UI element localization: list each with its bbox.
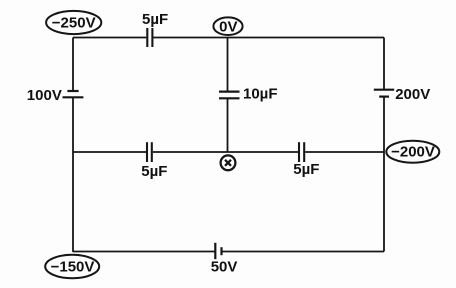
capacitor C1 5uF (top) <box>147 28 152 47</box>
node label -200V <box>386 141 439 163</box>
wire: middle horizontal right segment <box>305 151 384 153</box>
svg-text:−150V: −150V <box>51 258 95 275</box>
battery B3 50V (long plate) <box>214 243 216 259</box>
battery B3 50V (short plate) <box>220 247 222 255</box>
wire: left vertical top segment <box>72 38 74 92</box>
node X (test point) <box>221 155 236 170</box>
battery B1 100V (short plate) <box>67 90 78 92</box>
wire: center vertical bottom segment <box>227 98 229 152</box>
svg-text:200V: 200V <box>395 86 430 103</box>
svg-text:10µF: 10µF <box>243 85 278 102</box>
wire: center vertical top segment <box>227 38 229 92</box>
capacitor C2 10uF (bottom plate) <box>219 97 240 99</box>
wire: middle horizontal center segment <box>153 151 298 153</box>
capacitor C2 10uF (top plate) <box>219 90 240 92</box>
svg-text:−250V: −250V <box>52 14 96 31</box>
wire: middle horizontal left segment <box>73 151 146 153</box>
svg-text:−200V: −200V <box>391 144 435 161</box>
svg-text:50V: 50V <box>211 259 238 276</box>
wire: top horizontal right segment <box>153 37 384 39</box>
wire: right vertical bottom segment <box>383 97 385 252</box>
node label -250V <box>46 11 101 34</box>
svg-text:100V: 100V <box>27 87 62 104</box>
battery B2 200V (long plate) <box>374 89 394 91</box>
wire: bottom horizontal left segment <box>73 251 215 253</box>
wire: right vertical top segment <box>383 38 385 90</box>
node label -150V <box>45 255 99 278</box>
wire: bottom horizontal right segment <box>222 251 385 253</box>
capacitor C4 5uF (middle-right) <box>299 142 304 162</box>
svg-text:5µF: 5µF <box>142 11 168 28</box>
battery B2 200V (short plate) <box>379 95 389 97</box>
capacitor C3 5uF (middle-left) <box>147 142 152 162</box>
svg-text:0V: 0V <box>219 18 237 35</box>
node label 0V <box>213 17 242 35</box>
svg-text:5µF: 5µF <box>141 163 167 180</box>
svg-text:5µF: 5µF <box>293 161 319 178</box>
battery B1 100V (long plate) <box>63 96 84 98</box>
wire: left vertical bottom segment <box>72 97 74 252</box>
wire: top horizontal left segment <box>73 37 146 39</box>
